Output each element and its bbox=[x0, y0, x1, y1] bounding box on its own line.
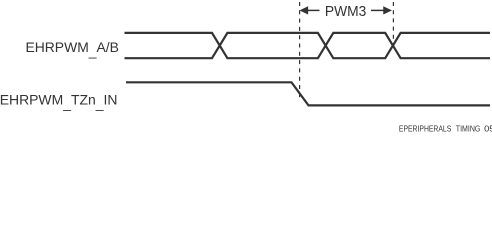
svg-text:TIMING: TIMING bbox=[456, 124, 481, 133]
dashed reference line 1 at TZn falling edge bbox=[299, 2, 301, 98]
dimension arrow right (points right to dashed line 2) bbox=[371, 9, 384, 11]
dimension arrow left (points left to dashed line 1) bbox=[307, 9, 320, 11]
svg-text:05: 05 bbox=[484, 124, 492, 133]
svg-text:EPERIPHERALS: EPERIPHERALS bbox=[399, 124, 451, 133]
dashed reference line 2 at A/B transition bbox=[392, 2, 394, 45]
bus waveform EHRPWM_A/B upper zigzag bbox=[125, 33, 491, 58]
bus waveform EHRPWM_A/B lower zigzag bbox=[125, 33, 491, 58]
svg-text:EHRPWM_A/B: EHRPWM_A/B bbox=[25, 39, 118, 59]
svg-text:PWM3: PWM3 bbox=[325, 4, 366, 20]
waveform EHRPWM_TZn_IN with falling edge bbox=[126, 82, 490, 105]
svg-text:EHRPWM_TZn_IN: EHRPWM_TZn_IN bbox=[0, 92, 117, 112]
